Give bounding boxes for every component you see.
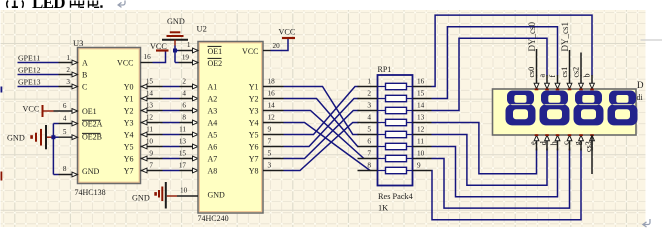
svg-text:12: 12 <box>146 114 154 122</box>
svg-text:6: 6 <box>182 102 186 110</box>
svg-text:16: 16 <box>268 90 276 98</box>
wire net GPE12 <box>18 74 59 76</box>
IC U3 body (74HC138) <box>78 48 141 184</box>
paragraph return mark after title <box>118 1 125 8</box>
svg-text:GPE11: GPE11 <box>18 54 40 63</box>
svg-text:13: 13 <box>146 102 154 110</box>
svg-text:A6: A6 <box>208 143 218 152</box>
svg-text:12: 12 <box>268 114 276 122</box>
svg-text:2: 2 <box>182 78 186 86</box>
wire RP1 pin 15 to segment f <box>432 27 558 99</box>
svg-text:74HC138: 74HC138 <box>75 188 106 197</box>
svg-text:DY_cs0: DY_cs0 <box>527 22 537 52</box>
wire Y5 to A6 <box>163 146 180 148</box>
svg-text:Y6: Y6 <box>124 155 134 164</box>
display digits 8888 <box>506 91 638 126</box>
U3 pin 15 (Y0) <box>141 86 163 88</box>
U3 pin 8 <box>53 174 58 176</box>
svg-text:A3: A3 <box>208 107 218 116</box>
svg-text:A2: A2 <box>208 95 218 104</box>
wire RP1 pin 9 to segment g <box>432 149 582 220</box>
U3 pin 5 <box>53 136 58 138</box>
svg-text:RP1: RP1 <box>378 65 392 74</box>
svg-text:20: 20 <box>273 42 281 50</box>
svg-text:4: 4 <box>367 114 371 122</box>
U2 pin 12 (Y4) <box>263 122 284 124</box>
svg-text:g: g <box>573 141 582 145</box>
RP1 resistor element 7 <box>378 158 386 160</box>
svg-text:Y4: Y4 <box>124 131 134 140</box>
U3 pin 10 (Y5) <box>141 146 163 148</box>
page artifact line (right margin) <box>641 39 662 41</box>
RP1 resistor element 4 <box>378 122 386 124</box>
wire net GPE13 <box>18 86 59 88</box>
svg-text:6: 6 <box>63 102 67 110</box>
svg-text:16: 16 <box>417 78 425 86</box>
U3 pin 11 (Y4) <box>141 134 163 136</box>
svg-text:14: 14 <box>417 102 425 110</box>
U2 pin 15 (A7) <box>180 158 199 160</box>
RP1 resistor element 6 <box>378 146 386 148</box>
RP1 resistor element 2 <box>378 98 386 100</box>
svg-text:A4: A4 <box>208 119 218 128</box>
svg-text:7: 7 <box>268 138 272 146</box>
left margin artifact 1 <box>1 87 3 93</box>
svg-text:A5: A5 <box>208 131 218 140</box>
U2 pin 6 (A3) <box>180 110 199 112</box>
svg-text:GND: GND <box>132 193 150 202</box>
wire RP1 pin 10 to segment c <box>432 149 570 209</box>
junction (U2 enable node) <box>173 49 177 53</box>
svg-text:VCC: VCC <box>242 47 258 56</box>
U3 pin 7 (Y7) <box>141 170 163 172</box>
resistor pack RP1 body <box>378 75 413 186</box>
RP1 resistor element 8 <box>378 170 386 172</box>
svg-text:18: 18 <box>268 78 276 86</box>
svg-text:VCC: VCC <box>117 59 133 68</box>
svg-text:GND: GND <box>208 191 226 200</box>
svg-text:14: 14 <box>268 102 276 110</box>
U2 pin 1 <box>175 50 179 52</box>
svg-text:Y4: Y4 <box>249 119 259 128</box>
svg-text:A8: A8 <box>208 167 218 176</box>
svg-text:1: 1 <box>187 41 191 49</box>
svg-text:9: 9 <box>268 126 272 134</box>
svg-text:VCC: VCC <box>279 27 296 36</box>
svg-text:5: 5 <box>268 150 272 158</box>
U2 pin 9 (Y5) <box>263 134 284 136</box>
RP1 pin 15 <box>413 98 432 100</box>
wire Y7 to A8 <box>163 170 180 172</box>
wire RP1 pin 12 to segment d <box>432 135 548 186</box>
svg-text:e: e <box>528 141 537 145</box>
display top pin b <box>591 75 593 89</box>
wire Y3 to A4 <box>163 122 180 124</box>
svg-text:10: 10 <box>146 138 154 146</box>
wire cs3 stub <box>591 135 593 174</box>
svg-text:6: 6 <box>367 138 371 146</box>
RP1 pin 1 <box>358 86 378 88</box>
svg-text:74HC240: 74HC240 <box>198 214 229 223</box>
RP1 pin 7 <box>358 158 378 160</box>
U2 pin 13 (A6) <box>180 146 199 148</box>
wire Y2 to A3 <box>163 110 180 112</box>
display top pin cs1 <box>569 75 571 89</box>
svg-text:A: A <box>82 59 88 68</box>
U2 pin 18 (Y1) <box>263 86 284 88</box>
wire cs2 stub <box>580 53 582 76</box>
svg-text:A1: A1 <box>208 83 218 92</box>
display top pin cs2 <box>580 75 582 89</box>
display top pin a <box>546 75 548 89</box>
svg-text:3: 3 <box>367 102 371 110</box>
svg-text:DY_cs1: DY_cs1 <box>560 22 570 52</box>
svg-text:GND: GND <box>167 17 185 26</box>
svg-text:b: b <box>583 74 592 78</box>
svg-text:1K: 1K <box>378 203 388 212</box>
RP1 resistor element 1 <box>378 86 386 88</box>
display top pin cs0 <box>536 75 538 89</box>
svg-text:2: 2 <box>367 90 371 98</box>
wire RP1 pin 13 to segment e <box>432 123 537 174</box>
display bottom pin e <box>536 135 538 151</box>
IC U2 body (74HC240) <box>198 42 263 214</box>
svg-text:1: 1 <box>66 54 70 62</box>
wire Y0 to A1 <box>163 86 180 88</box>
RP1 resistor element 5 <box>378 134 386 136</box>
U3 pin 4 <box>53 123 58 125</box>
U2 pin 16 (Y2) <box>263 98 284 100</box>
svg-text:GPE13: GPE13 <box>18 78 41 87</box>
svg-text:Y2: Y2 <box>124 107 134 116</box>
display bottom pin c <box>569 135 571 151</box>
svg-text:11: 11 <box>417 138 424 146</box>
wire net DY_cs1 (cs1 stub) <box>569 50 571 76</box>
U3 pin 1 <box>59 62 78 64</box>
RP1 pin 6 <box>358 146 378 148</box>
left margin artifact 2 <box>1 172 3 181</box>
svg-text:cs0: cs0 <box>527 67 536 78</box>
svg-text:1: 1 <box>367 78 371 86</box>
svg-text:B: B <box>82 71 87 80</box>
svg-text:f: f <box>548 75 557 78</box>
svg-text:a: a <box>538 74 547 78</box>
display top pin f <box>557 75 559 89</box>
display bottom pin cs3 <box>591 135 593 151</box>
RP1 pin 5 <box>358 134 378 136</box>
U2 pin 3 (Y8) <box>263 170 284 172</box>
svg-text:GND: GND <box>82 167 100 176</box>
wire VCC to U3 pin16 <box>153 51 166 63</box>
RP1 pin 16 <box>413 86 432 88</box>
wire RP1 pin 14 to segment a <box>432 38 548 110</box>
wire Y3 to RP1 pin 7 <box>284 111 364 159</box>
display bottom pin g <box>580 135 582 151</box>
svg-text:10: 10 <box>417 150 425 158</box>
RP1 pin 14 <box>413 110 432 112</box>
svg-text:d: d <box>539 141 548 145</box>
RP1 pin 10 <box>413 158 432 160</box>
RP1 pin 2 <box>358 98 378 100</box>
svg-text:D: D <box>637 80 644 90</box>
RP1 pin 9 <box>413 170 432 172</box>
RP1 pin 11 <box>413 146 432 148</box>
U3 pin 13 (Y2) <box>141 110 163 112</box>
wire Y1 to RP1 pin 5 <box>284 87 359 135</box>
wire Y4 to A5 <box>163 134 180 136</box>
U3 pin 2 <box>59 74 78 76</box>
svg-text:OE2A: OE2A <box>82 120 103 129</box>
svg-text:19: 19 <box>182 54 190 62</box>
svg-text:Res Pack4: Res Pack4 <box>378 192 414 201</box>
svg-text:Y2: Y2 <box>249 95 259 104</box>
wire Y6 to RP1 pin 2 <box>284 99 359 147</box>
svg-text:5: 5 <box>63 128 67 136</box>
svg-text:Y7: Y7 <box>124 167 134 176</box>
RP1 pin 4 <box>358 122 378 124</box>
U3 pin 16 <box>141 62 153 64</box>
wire RP1 pin 11 to segment h <box>432 147 558 197</box>
paragraph return mark (bottom right) <box>643 219 650 227</box>
U2 pin 19 <box>175 62 179 64</box>
svg-text:cs2: cs2 <box>572 67 581 78</box>
svg-text:Y1: Y1 <box>124 95 134 104</box>
svg-text:2: 2 <box>66 66 70 74</box>
svg-text:8: 8 <box>367 162 371 170</box>
U3 pin 14 (Y1) <box>141 98 163 100</box>
svg-text:16: 16 <box>144 53 152 61</box>
svg-text:8: 8 <box>63 165 67 173</box>
wire Y7 to RP1 pin 3 <box>284 111 359 159</box>
svg-text:3: 3 <box>268 162 272 170</box>
wire Y4 to RP1 pin 8 <box>284 123 371 171</box>
svg-text:LED: LED <box>32 0 65 12</box>
svg-text:5: 5 <box>367 126 371 134</box>
U2 pin 4 (A2) <box>180 98 199 100</box>
junction (GND node) <box>51 135 55 139</box>
svg-text:13: 13 <box>417 114 425 122</box>
svg-text:OE2B: OE2B <box>82 133 102 142</box>
svg-text:OE2: OE2 <box>208 59 223 68</box>
U3 pin 12 (Y3) <box>141 122 163 124</box>
svg-text:Y3: Y3 <box>249 107 259 116</box>
U2 pin 8 (A4) <box>180 122 199 124</box>
U3 pin 9 (Y6) <box>141 158 163 160</box>
svg-text:GND: GND <box>7 134 25 143</box>
wire Y6 to A7 <box>163 158 180 160</box>
U3 pin 3 <box>59 86 78 88</box>
svg-text:15: 15 <box>179 150 187 158</box>
U2 pin 10 <box>177 195 198 197</box>
RP1 pin 8 <box>358 170 378 172</box>
svg-text:9: 9 <box>149 150 153 158</box>
U2 pin 20 <box>263 50 271 52</box>
svg-text:A7: A7 <box>208 155 218 164</box>
wire Y5 to RP1 pin 1 <box>284 87 359 135</box>
svg-text:10: 10 <box>180 186 188 194</box>
U2 pin 5 (Y7) <box>263 158 284 160</box>
7-segment display D body <box>493 89 637 135</box>
svg-text:Y6: Y6 <box>249 143 259 152</box>
svg-text:cs1: cs1 <box>560 67 569 78</box>
wire net DY_cs0 (cs0 stub) <box>536 49 538 76</box>
svg-text:15: 15 <box>146 78 154 86</box>
svg-text:Y5: Y5 <box>124 143 134 152</box>
RP1 pin 3 <box>358 110 378 112</box>
svg-text:Y5: Y5 <box>249 131 259 140</box>
U3 pin 6 <box>54 110 78 112</box>
wire Y2 to RP1 pin 6 <box>284 99 359 147</box>
RP1 pin 13 <box>413 122 432 124</box>
wire RP1 pin 16 to segment b <box>432 15 593 86</box>
U2 pin 11 (A5) <box>180 134 199 136</box>
wire GND to pins 4/5/8 <box>52 124 54 175</box>
wire U2 pin20 to VCC <box>271 38 289 51</box>
svg-text:4: 4 <box>63 115 67 123</box>
U2 pin 14 (Y3) <box>263 110 284 112</box>
svg-text:11: 11 <box>146 126 153 134</box>
svg-text:12: 12 <box>417 126 425 134</box>
svg-text:Y1: Y1 <box>249 83 259 92</box>
svg-text:OE1: OE1 <box>208 47 223 56</box>
U2 pin 17 (A8) <box>180 170 199 172</box>
svg-text:U3: U3 <box>73 38 83 48</box>
svg-text:GPE12: GPE12 <box>18 66 41 75</box>
display bottom pin h <box>557 135 559 151</box>
svg-text:h: h <box>549 141 558 145</box>
svg-text:VCC: VCC <box>23 105 40 114</box>
svg-text:14: 14 <box>146 90 154 98</box>
svg-text:7: 7 <box>367 150 371 158</box>
wire Y8 to RP1 pin 4 <box>284 123 359 171</box>
svg-text:8: 8 <box>182 114 186 122</box>
svg-text:9: 9 <box>417 162 421 170</box>
svg-text:di: di <box>637 93 644 102</box>
svg-text:17: 17 <box>179 162 187 170</box>
svg-text:U2: U2 <box>197 24 207 34</box>
svg-text:OE1: OE1 <box>82 107 97 116</box>
svg-text:3: 3 <box>66 78 70 86</box>
wire GND to U2 pins 1/19 <box>174 46 176 63</box>
RP1 pin 12 <box>413 134 432 136</box>
RP1 resistor element 3 <box>378 110 386 112</box>
svg-text:13: 13 <box>179 138 187 146</box>
svg-text:Y3: Y3 <box>124 119 134 128</box>
wire Y1 to A2 <box>163 98 180 100</box>
svg-text:11: 11 <box>179 126 186 134</box>
svg-text:Y8: Y8 <box>249 167 259 176</box>
wire net GPE11 <box>18 62 59 64</box>
U2 pin 2 (A1) <box>180 86 199 88</box>
svg-text:c: c <box>561 141 570 145</box>
display bottom pin d <box>546 135 548 151</box>
svg-text:Y0: Y0 <box>124 83 134 92</box>
svg-text:Y7: Y7 <box>249 155 259 164</box>
svg-text:C: C <box>82 83 87 92</box>
svg-text:15: 15 <box>417 90 425 98</box>
svg-text:4: 4 <box>182 90 186 98</box>
U2 pin 7 (Y6) <box>263 146 284 148</box>
svg-text:7: 7 <box>149 162 153 170</box>
